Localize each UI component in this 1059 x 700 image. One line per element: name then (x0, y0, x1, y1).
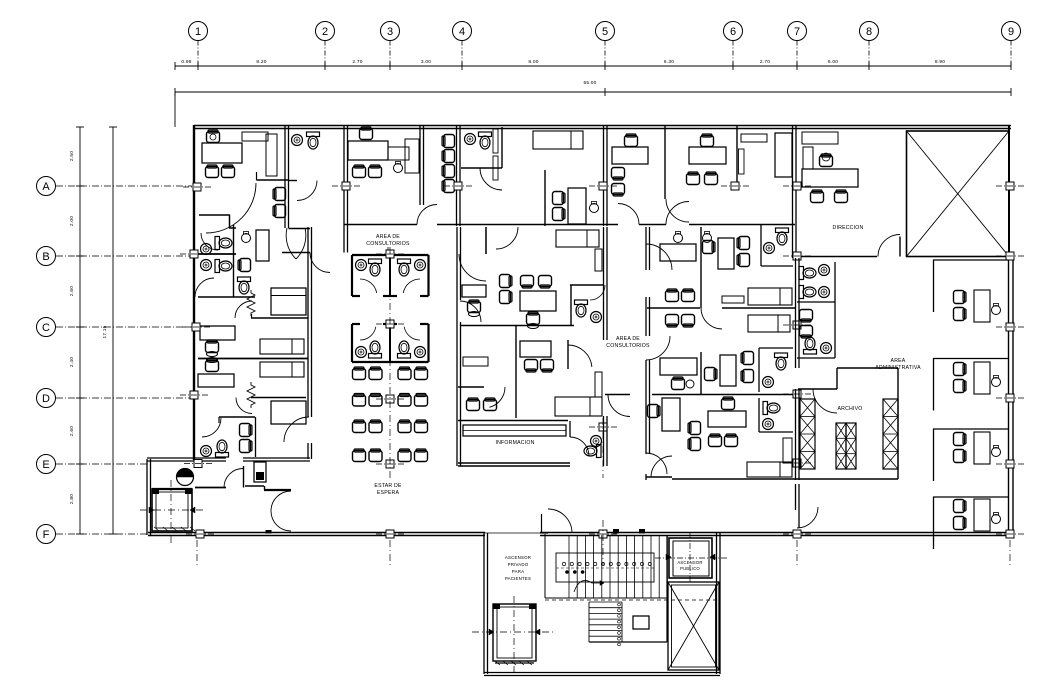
tick 3E (376, 460, 404, 468)
chair room3 b (369, 165, 382, 178)
shelf rects right of WC (493, 129, 498, 153)
door arc WC top-left (297, 181, 317, 201)
grid line 3 drop (389, 41, 391, 67)
svg-text:B: B (42, 251, 49, 263)
WC m4 (758, 348, 760, 392)
stairwell wall (544, 534, 546, 598)
top dimension line (175, 65, 1011, 67)
rack mid a (836, 423, 846, 469)
toilet B2 (215, 260, 232, 273)
chair D1 (240, 424, 253, 437)
sink room2 (292, 135, 303, 146)
desk B2 (520, 341, 551, 357)
tick 3B (376, 250, 404, 258)
wall x737 (736, 126, 738, 188)
monitor B (242, 232, 251, 243)
svg-text:8.00: 8.00 (528, 59, 538, 65)
fixture (633, 616, 649, 629)
desk C (200, 326, 235, 340)
monitor room5L (590, 202, 599, 213)
outer wall right (double) (1008, 125, 1010, 256)
svg-text:4: 4 (459, 26, 465, 38)
handrail box (556, 553, 654, 582)
toilet WC mid (575, 300, 588, 317)
desk room6 (689, 147, 726, 164)
door arc cell B1 (201, 233, 218, 250)
desk m2 (718, 238, 734, 269)
chair room6 top (701, 134, 714, 147)
room m2 furniture (703, 241, 716, 254)
door arc mr5 (608, 395, 630, 417)
grid line D (56, 397, 192, 399)
svg-text:2.70: 2.70 (352, 59, 362, 65)
desk room1 (202, 143, 242, 163)
grid line 1 drop (197, 41, 199, 67)
couch room1 top (242, 132, 268, 141)
sink WCm4 (763, 377, 774, 388)
upper stair flight treads (568, 535, 570, 598)
door arc room B (195, 278, 214, 297)
wall x458 lower (456, 227, 458, 466)
tick A x458 (444, 182, 472, 190)
table m2 (722, 296, 744, 303)
door arc vestibule (224, 469, 243, 488)
svg-text:8.20: 8.20 (256, 59, 266, 65)
bed C1 (271, 288, 306, 315)
desk A2 (520, 291, 556, 311)
credenza A (463, 357, 488, 366)
door arc A2 (496, 227, 518, 249)
door arc infoB (568, 345, 592, 367)
wall x345 double (343, 126, 345, 253)
wall x605 double (603, 126, 605, 226)
WC cell right of corridor (760, 225, 762, 266)
door arc room C (235, 301, 252, 318)
shelf room6 (739, 149, 745, 174)
svg-text:C: C (42, 322, 50, 334)
archivo room (798, 388, 837, 390)
basin half fill (177, 469, 194, 477)
lower stair flight (588, 602, 590, 642)
svg-text:PARA: PARA (512, 569, 524, 574)
grid3 dash (389, 247, 391, 480)
svg-text:55.00: 55.00 (583, 80, 596, 86)
wall x794 double (direccion) (792, 126, 794, 258)
svg-text:1: 1 (195, 26, 201, 38)
corridor wall x309 double (307, 227, 309, 417)
double swing door (271, 491, 291, 511)
chair room1 a (206, 165, 219, 178)
chair room5 top (625, 134, 638, 147)
grid bubble 2 (316, 22, 335, 41)
desk room5 (612, 147, 648, 164)
tick 7D (783, 390, 811, 398)
shelf direccion (802, 132, 838, 144)
door sill hatch (154, 527, 195, 531)
corridor top wall mid (344, 224, 417, 226)
outer wall left (193, 125, 195, 460)
grid bubble 7 (788, 22, 807, 41)
desk m5 (662, 398, 680, 431)
bed infoC (555, 397, 602, 416)
grid bubble A (37, 177, 56, 196)
desk m6 (708, 411, 746, 427)
svg-text:ARCHIVO: ARCHIVO (837, 406, 862, 412)
tick 1C (182, 323, 210, 331)
bathroom D walls (219, 416, 255, 418)
bay furniture y288 (974, 290, 990, 322)
door arc infoA (489, 387, 505, 407)
tick 7E (783, 459, 811, 467)
svg-text:2.00: 2.00 (69, 216, 75, 226)
bed m6 (747, 462, 792, 477)
bed m2 (748, 288, 792, 305)
wall y254 row B (194, 253, 236, 255)
lower shaft with X (668, 582, 719, 670)
grid line 6 drop (732, 41, 734, 67)
public elevator shaft (669, 538, 712, 578)
outer wall top (194, 125, 1011, 127)
svg-text:ESTAR DE: ESTAR DE (374, 483, 401, 489)
grid bubble 4 (453, 22, 472, 41)
door arc B-row (310, 253, 330, 273)
chair direccion (820, 154, 833, 167)
grid line C (56, 326, 192, 328)
direccion bottom wall (794, 256, 877, 258)
svg-text:PRIVADO: PRIVADO (508, 562, 529, 567)
chair room1 d (273, 205, 286, 218)
sink B2 (201, 260, 212, 271)
svg-text:DIRECCION: DIRECCION (833, 225, 864, 231)
door arc mr2 (646, 336, 670, 360)
bay partition y497 (933, 496, 1008, 498)
toilet WCm6 (763, 402, 780, 415)
chair room1 b (222, 165, 235, 178)
svg-text:2.60: 2.60 (69, 286, 75, 296)
wall x421 (419, 126, 421, 205)
lower-left extension walls (146, 459, 148, 535)
elevator door sill (495, 662, 534, 664)
grid line 4 drop (461, 41, 463, 67)
bay partition y260 (933, 259, 1008, 261)
bed C2 (260, 339, 304, 354)
up arrow (574, 580, 604, 592)
wall y309 (647, 307, 700, 309)
wall y319 under bed (251, 317, 308, 319)
svg-text:ASCENSOR: ASCENSOR (677, 560, 702, 565)
tick 9D (996, 394, 1024, 402)
couch room7 (775, 133, 792, 177)
chair B1 (238, 259, 251, 272)
grid bubble B (37, 247, 56, 266)
sink room4 (465, 134, 476, 145)
sink info (591, 436, 602, 447)
sink D (201, 446, 212, 457)
svg-text:5: 5 (602, 26, 608, 38)
bay furniture y360 (974, 362, 990, 394)
toilet B1 (215, 237, 232, 250)
shaft top-right with X (907, 131, 1010, 257)
svg-text:6.00: 6.00 (828, 59, 838, 65)
tick 1E (184, 460, 212, 468)
WC mid (570-605,285-325) (570, 284, 604, 286)
grid line B (56, 255, 192, 257)
wall x235 (233, 225, 235, 297)
WC m6 (758, 398, 760, 432)
toilet room4 (479, 132, 492, 149)
shelf m6 (783, 438, 792, 463)
svg-text:6.30: 6.30 (664, 59, 674, 65)
wall y325 (461, 325, 575, 327)
desk m4 (720, 355, 736, 386)
chair D2 (240, 440, 253, 453)
wall x701 (700, 227, 702, 308)
tick 5A (589, 182, 617, 190)
chair room1 top (207, 130, 220, 143)
toilet WCm4 (775, 353, 788, 370)
shelf A2 (595, 249, 602, 271)
door arc archivo (813, 389, 837, 413)
grid bubble D (37, 389, 56, 408)
grid line 8 drop (868, 41, 870, 67)
svg-text:2.80: 2.80 (69, 494, 75, 504)
grid line 9 drop (1010, 41, 1012, 67)
left extent drop (174, 92, 176, 127)
chair desk D (206, 359, 219, 372)
counter INFORMACION (463, 425, 566, 436)
sink WCm2 (764, 243, 775, 254)
return room3 (405, 139, 419, 173)
grid line 7 drop (796, 41, 798, 67)
desk direccion limb (803, 147, 813, 169)
tick 3F (376, 530, 404, 538)
tick 3C (376, 320, 404, 328)
svg-text:17.15: 17.15 (102, 325, 108, 338)
cord zigzag 1 (247, 290, 255, 316)
svg-text:CONSULTORIOS: CONSULTORIOS (366, 241, 410, 247)
stair extension walls (483, 533, 485, 674)
tick 9F (996, 530, 1024, 538)
tick A x194 (183, 183, 211, 191)
wall y297 (198, 296, 255, 298)
tick 1B (180, 250, 208, 258)
big door arc room1 (206, 183, 256, 233)
wall y356 row C/D (198, 358, 308, 360)
room m6 bottom furniture (722, 397, 735, 410)
vestibule wall y487 (195, 487, 226, 489)
tick 9C (996, 323, 1024, 331)
svg-text:D: D (42, 393, 50, 405)
svg-text:0.98: 0.98 (181, 59, 191, 65)
svg-text:6: 6 (730, 26, 736, 38)
svg-text:F: F (43, 529, 50, 541)
sink B1 (201, 244, 212, 255)
grid bubble F (37, 525, 56, 544)
door arc corridor 2 (618, 204, 639, 225)
door jamb (541, 514, 543, 533)
chair r5 a (553, 192, 566, 205)
svg-text:3: 3 (387, 26, 393, 38)
table D (271, 401, 306, 424)
grid bubble 1 (189, 22, 208, 41)
svg-text:INFORMACION: INFORMACION (495, 440, 534, 446)
B-row wall right of corridor (282, 252, 310, 254)
toilet D (216, 440, 229, 457)
wall x797 lower double (795, 258, 797, 368)
svg-text:2: 2 (322, 26, 328, 38)
svg-text:E: E (42, 459, 49, 471)
toilet block 1 (352, 254, 429, 256)
chair A2b (539, 276, 552, 289)
tick 9B (996, 252, 1024, 260)
chair room1 c (273, 188, 286, 201)
tick 7F (783, 530, 811, 538)
tick 5 info (589, 423, 617, 431)
bed D (260, 362, 304, 377)
svg-text:2.40: 2.40 (69, 357, 75, 367)
svg-text:2.60: 2.60 (69, 426, 75, 436)
tick 7C (783, 321, 811, 329)
chair A1 (468, 300, 481, 313)
door arc WC mid2 (590, 285, 605, 300)
svg-text:AREA: AREA (891, 358, 906, 364)
door arc stairs entry (548, 509, 572, 533)
dashed break line (545, 599, 720, 601)
door arc A1 (459, 254, 486, 281)
door arc mr1 (646, 244, 672, 270)
door arc bath D (202, 418, 221, 437)
grid line F (56, 533, 148, 535)
grid bubble 9 (1002, 22, 1021, 41)
toilet WCm2 (776, 228, 789, 245)
bay furniture y430 (974, 432, 990, 464)
room m1 furniture (674, 232, 683, 243)
chair r5 b (553, 208, 566, 221)
chair room3 a (353, 165, 366, 178)
toilet room2 (307, 132, 320, 149)
chair desk C (206, 340, 219, 353)
tick 1D (180, 391, 208, 399)
room1 bottom jog walls (199, 214, 230, 216)
wall x605 lower double (603, 227, 605, 340)
waiting chairs 4x4 (353, 367, 366, 380)
desk m3 (660, 358, 697, 375)
grid bubble 5 (596, 22, 615, 41)
sink WC mid (591, 312, 602, 323)
svg-text:PUBLICO: PUBLICO (680, 566, 700, 571)
door arc mr3 (646, 453, 667, 474)
wall x516 (515, 326, 517, 419)
door arc WC info (570, 437, 589, 456)
svg-text:2.50: 2.50 (69, 151, 75, 161)
patient elevator cab (493, 604, 536, 661)
outer wall bottom main (148, 532, 485, 534)
svg-text:PACIENTES: PACIENTES (505, 576, 531, 581)
overall 17.15 dimension line (112, 127, 114, 534)
tick 5F (589, 530, 617, 538)
rack right (883, 399, 898, 469)
door arc mr4 (701, 308, 722, 329)
cord zigzag 2 (247, 382, 255, 408)
door arc corridor 3 (666, 202, 689, 225)
WC top-left door (289, 180, 298, 182)
wall x256 (255, 417, 257, 457)
tick 7B (783, 252, 811, 260)
svg-text:8.90: 8.90 (935, 59, 945, 65)
monitor room3 (394, 162, 403, 173)
bed A2 (556, 230, 599, 247)
tick A x735 (721, 182, 749, 190)
tick 7A (783, 182, 811, 190)
sink WCm6 (763, 419, 774, 430)
wall x486 (485, 227, 487, 254)
grid line 5 drop (604, 41, 606, 67)
svg-text:AREA DE: AREA DE (616, 336, 640, 342)
room m3 furniture (666, 315, 679, 328)
desk B vertical (256, 230, 269, 261)
corridor wall y228.5 (289, 228, 311, 230)
grid bubble 8 (860, 22, 879, 41)
door arc WC mid (480, 168, 502, 190)
bed m4 (748, 315, 790, 332)
couch room1 side (266, 134, 277, 176)
desk room5L (568, 188, 586, 224)
svg-text:2.70: 2.70 (760, 59, 770, 65)
stair landing edge (545, 597, 668, 599)
double entry doors (286, 228, 296, 259)
toilet B3 (238, 277, 251, 294)
room right of stairs (666, 535, 668, 642)
WC right cluster (797, 301, 835, 303)
svg-text:AREA DE: AREA DE (376, 234, 400, 240)
wall pier marks (613, 529, 619, 534)
room4b furniture: chairs column on left (442, 135, 455, 148)
tick 9A (996, 182, 1024, 190)
svg-text:CONSULTORIOS: CONSULTORIOS (606, 343, 650, 349)
table room3 (388, 147, 409, 160)
grid bubble 6 (724, 22, 743, 41)
bay partition y429 (933, 428, 1008, 430)
tick A x346 (332, 182, 360, 190)
desk m1 (660, 244, 696, 261)
wall x568 (567, 340, 569, 369)
chair room3 top (360, 127, 373, 140)
chair A2c (527, 312, 540, 325)
svg-text:8: 8 (866, 26, 872, 38)
tick 9E (996, 460, 1024, 468)
bay furniture y497 (974, 499, 990, 531)
door arc corridor (417, 205, 437, 225)
grid line 2 drop (324, 41, 326, 67)
information counter (458, 420, 568, 422)
svg-text:ASCENSOR: ASCENSOR (505, 555, 531, 560)
shelf room7 (741, 134, 767, 142)
toilet info (584, 445, 601, 458)
wall y397.5 (251, 397, 306, 399)
rack left (800, 399, 815, 469)
overall 55.00 dimension line (175, 91, 1011, 93)
wall x458 double (456, 126, 458, 226)
shelf infoC (595, 372, 602, 397)
tick 1F (186, 530, 214, 538)
chair A2a (521, 276, 534, 289)
closet wall y180 (257, 179, 289, 181)
door arc corridor exit (797, 507, 818, 528)
desk A1 (462, 285, 486, 297)
WC cell wall x502 (501, 127, 503, 168)
desk D (198, 374, 234, 387)
wall y395 row D (605, 394, 630, 396)
